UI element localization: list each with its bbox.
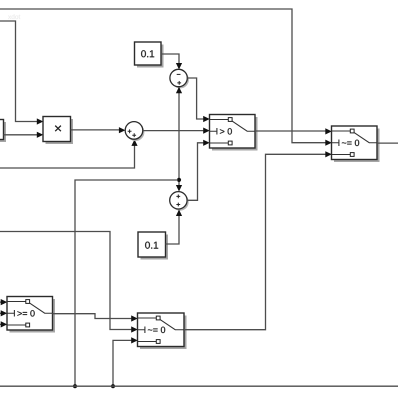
wire from bottom bus up to Switch4 in3 bbox=[113, 337, 138, 386]
constant block C1 value 0.1 bbox=[135, 42, 164, 68]
wire top net from left edge to Switch2 in2 bbox=[0, 9, 332, 146]
wire Sum1 out to Switch1 in2 bbox=[143, 128, 210, 134]
wire Switch3 out to Switch4 in1 with jog bbox=[53, 314, 138, 322]
wire C2 out up into Sum3 bottom bbox=[166, 210, 183, 245]
switch block Switch1 criteria > 0 bbox=[210, 115, 258, 151]
wire Sum3 out to Switch1 in3 bbox=[187, 140, 210, 201]
node junction dot C on bottom bus bbox=[111, 384, 115, 388]
switch block Switch2 criteria ~= 0 bbox=[332, 126, 380, 162]
node junction dot B on bottom bus bbox=[73, 384, 77, 388]
wire from left edge down to Switch4 in2 bbox=[0, 232, 138, 333]
sum block Sum2 bbox=[170, 69, 189, 88]
faint label top-left bbox=[8, 14, 20, 19]
wire stub into Switch3 in1 bbox=[0, 299, 7, 305]
wire from In1 block to Product in2 bbox=[4, 132, 44, 138]
wire Switch1 out to Switch2 in1 bbox=[255, 128, 332, 134]
wire Switch2 out to right edge bbox=[377, 142, 398, 144]
wire from left edge up into Sum1 bottom bbox=[0, 139, 138, 168]
switch block Switch4 criteria ~= 0 bbox=[138, 313, 187, 349]
wire Switch4 out up to Switch2 in3 bbox=[184, 151, 332, 330]
wire C1 out down into Sum2 top bbox=[161, 54, 182, 70]
wire stub into Switch3 in3 bbox=[0, 321, 7, 327]
constant block C2 value 0.1 bbox=[138, 232, 168, 260]
wire Sum2 out to Switch1 in1 bbox=[187, 78, 209, 122]
block In1 (partial at left edge) bbox=[0, 120, 6, 143]
wire stub into Switch3 in2 bbox=[0, 310, 7, 316]
sum block Sum1 bbox=[125, 122, 144, 141]
wire from left edge corner into Product in1 bbox=[0, 21, 43, 125]
node junction dot A bbox=[177, 178, 181, 182]
wire junction net up into Sum2 bottom and down into Sum3 top bbox=[176, 87, 182, 192]
wire from bottom bus up to junction A bbox=[75, 180, 178, 386]
product block P1 bbox=[43, 117, 73, 145]
wire Product out to Sum1 bbox=[71, 127, 126, 133]
switch block Switch3 criteria >= 0 bbox=[7, 297, 55, 333]
wire bottom bus bbox=[0, 385, 398, 387]
sum block Sum3 bbox=[170, 192, 189, 211]
